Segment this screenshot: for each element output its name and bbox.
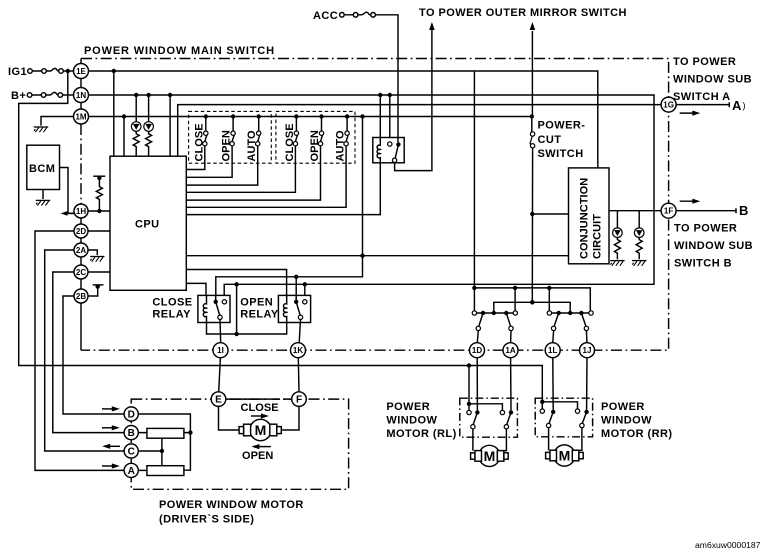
relay K2 close box bbox=[198, 295, 230, 322]
connector B bbox=[124, 426, 138, 440]
svg-text:POWER-: POWER- bbox=[538, 120, 586, 132]
sub switch bus 2 (above 1L/1J) bbox=[547, 311, 551, 315]
svg-text:OPEN: OPEN bbox=[309, 130, 321, 161]
wire 1M ground stub bbox=[41, 117, 74, 126]
connector 1F bbox=[661, 203, 676, 218]
ground (1M) bbox=[34, 127, 48, 132]
arrow C row (left) bbox=[106, 445, 120, 447]
svg-text:CLOSE: CLOSE bbox=[193, 123, 205, 161]
arrow open (driver motor) bbox=[255, 446, 271, 448]
RL motor switch box bbox=[460, 398, 518, 437]
node coil-bottom branch on B+ line bbox=[303, 282, 307, 286]
svg-text:SWITCH A: SWITCH A bbox=[673, 91, 731, 103]
svg-text:1G: 1G bbox=[663, 101, 674, 110]
svg-text:ACC: ACC bbox=[313, 10, 338, 22]
relay K3 open box bbox=[278, 295, 310, 322]
svg-text:RELAY: RELAY bbox=[152, 309, 191, 321]
svg-text:SWITCH: SWITCH bbox=[538, 148, 584, 160]
svg-text:B+: B+ bbox=[11, 90, 26, 102]
motor M-RR bbox=[546, 445, 584, 466]
switch SW-OPEN1 bbox=[186, 114, 235, 177]
svg-text:D: D bbox=[128, 410, 135, 421]
connector 1I bbox=[213, 343, 228, 358]
wire relay output to mirror switch bbox=[395, 31, 432, 171]
lamp LED2 branch bbox=[148, 95, 150, 122]
arrow D row bbox=[102, 408, 116, 410]
switch SW-AUTO1 bbox=[186, 114, 261, 185]
connector 1E bbox=[74, 64, 89, 79]
svg-text:WINDOW SUB: WINDOW SUB bbox=[673, 74, 752, 86]
connector 1N bbox=[74, 88, 89, 103]
switch dashed box 1 bbox=[189, 111, 272, 163]
svg-text:POWER WINDOW MOTOR: POWER WINDOW MOTOR bbox=[159, 499, 304, 511]
arrow to mirror switch 1 bbox=[431, 24, 433, 31]
node 1E-CPU drop bbox=[112, 69, 116, 73]
connector labels bbox=[75, 67, 673, 477]
wire 1M net horizontal bbox=[89, 116, 532, 118]
wire 1H to CPU bbox=[88, 210, 110, 212]
ground (BCM) bbox=[36, 200, 50, 205]
switch SW-AUTO2 bbox=[186, 114, 349, 207]
svg-text:2D: 2D bbox=[76, 227, 86, 236]
svg-text:CPU: CPU bbox=[135, 219, 160, 231]
svg-text:RELAY: RELAY bbox=[240, 309, 279, 321]
wire conj output to 1F bbox=[609, 210, 661, 212]
svg-text:AUTO: AUTO bbox=[246, 130, 258, 162]
svg-text:2A: 2A bbox=[76, 246, 86, 255]
wire CPU to close relay coil bbox=[186, 283, 206, 295]
lamp LED3 branch bbox=[616, 211, 618, 228]
svg-text:): ) bbox=[743, 101, 746, 111]
wire 2C to B bbox=[53, 272, 124, 433]
wire 2A ground bbox=[88, 250, 97, 255]
connector E bbox=[211, 392, 226, 407]
svg-text:1D: 1D bbox=[472, 346, 482, 355]
svg-text:POWER WINDOW MAIN SWITCH: POWER WINDOW MAIN SWITCH bbox=[84, 45, 275, 57]
sub switch bus 1 (above 1D/1A) bbox=[472, 311, 476, 315]
wire 1N net horizontal bbox=[89, 95, 655, 300]
svg-text:M: M bbox=[255, 422, 267, 438]
svg-text:CLOSE: CLOSE bbox=[152, 297, 192, 309]
power-cut switch SW-PC bbox=[531, 117, 533, 133]
arrow close (driver motor) bbox=[251, 415, 265, 417]
svg-text:MOTOR (RL): MOTOR (RL) bbox=[386, 428, 456, 440]
connector A bbox=[124, 463, 138, 477]
relay K1 coil bbox=[377, 138, 380, 164]
wire 1N to CPU drop bbox=[169, 95, 171, 156]
wire 2C to CPU bbox=[88, 271, 110, 273]
connector 1D bbox=[470, 343, 485, 358]
RR motor switch box bbox=[535, 398, 592, 437]
lamp LED1 branch bbox=[135, 95, 137, 122]
svg-text:WINDOW: WINDOW bbox=[601, 415, 652, 427]
wire 2D to CPU bbox=[88, 230, 110, 232]
svg-text:1A: 1A bbox=[505, 346, 515, 355]
svg-text:A: A bbox=[128, 466, 135, 477]
svg-text:A: A bbox=[732, 98, 742, 113]
B+ fuse bbox=[27, 93, 32, 98]
svg-text:E: E bbox=[215, 395, 222, 406]
wire coil bottoms tie bbox=[207, 321, 287, 334]
wire IG1 feed branch to rear motors bbox=[19, 71, 543, 402]
wire relay coil return row7 bbox=[186, 163, 380, 215]
ACC fuse bbox=[340, 13, 345, 18]
RL B+ contacts bbox=[467, 363, 471, 367]
connector 2A bbox=[74, 243, 88, 257]
main switch box outline (dash-dot) bbox=[81, 59, 669, 351]
switch dashed box 2 bbox=[276, 111, 355, 163]
wire E to F (driver box top) bbox=[226, 398, 262, 400]
svg-text:1I: 1I bbox=[217, 346, 224, 355]
svg-text:(DRIVER`S SIDE): (DRIVER`S SIDE) bbox=[159, 514, 254, 526]
wires 1I/1K down to E/F bbox=[219, 358, 299, 392]
svg-text:1M: 1M bbox=[75, 113, 86, 122]
RL switch poles bbox=[475, 410, 479, 414]
wire 1E net horizontal bbox=[89, 71, 598, 168]
wire CPU to conjunction circuit bbox=[186, 255, 568, 257]
CPU box U1 bbox=[110, 156, 186, 290]
svg-text:TO POWER OUTER MIRROR SWITCH: TO POWER OUTER MIRROR SWITCH bbox=[419, 7, 627, 19]
svg-text:WINDOW: WINDOW bbox=[386, 415, 437, 427]
BCM box bbox=[27, 145, 60, 189]
switch SW-CLOSE2 bbox=[186, 114, 298, 192]
switch SW-CLOSE1 bbox=[186, 114, 208, 169]
conjunction circuit box bbox=[569, 168, 610, 264]
BCM ground bbox=[42, 190, 44, 200]
svg-text:BCM: BCM bbox=[29, 163, 55, 175]
svg-text:am6xuw0000187: am6xuw0000187 bbox=[695, 540, 761, 550]
wire 2D to A bbox=[35, 231, 124, 470]
lamp LED4 branch bbox=[638, 211, 640, 228]
wire to 1G (from CPU top) bbox=[178, 105, 662, 157]
arrow to mirror switch 2 bbox=[531, 31, 533, 117]
svg-text:M: M bbox=[559, 448, 571, 464]
switch SW-OPEN2 bbox=[186, 114, 323, 200]
motor M driver bbox=[239, 419, 281, 440]
arrow 1G bbox=[680, 112, 697, 114]
RR B+ contacts bbox=[540, 400, 544, 404]
ground (LED4) bbox=[632, 261, 646, 266]
svg-text:IG1: IG1 bbox=[8, 66, 27, 78]
connector 1K bbox=[291, 343, 306, 358]
svg-text:CLOSE: CLOSE bbox=[241, 402, 279, 414]
svg-text:TO POWER: TO POWER bbox=[673, 56, 736, 68]
wire CPU to open relay coil bbox=[186, 270, 286, 296]
arrow 1F bbox=[680, 200, 697, 202]
svg-text:2C: 2C bbox=[76, 268, 86, 277]
resistor bar RB1 bbox=[147, 428, 184, 438]
svg-text:CLOSE: CLOSE bbox=[284, 123, 296, 161]
wire 1M to relay commons bbox=[216, 117, 363, 296]
wire relay NC contact feed bbox=[389, 95, 391, 142]
svg-text:POWER: POWER bbox=[601, 401, 645, 413]
connector 1J bbox=[580, 343, 595, 358]
svg-text:AUTO: AUTO bbox=[335, 130, 347, 162]
connector 1L bbox=[545, 343, 560, 358]
connector D bbox=[124, 407, 138, 421]
svg-text:B: B bbox=[739, 203, 748, 218]
ground (2A) bbox=[90, 257, 104, 262]
svg-text:2B: 2B bbox=[76, 292, 86, 301]
svg-text:CUT: CUT bbox=[538, 134, 562, 146]
pivot rail bbox=[494, 302, 570, 313]
wire BCM to 1H bbox=[60, 168, 75, 214]
svg-text:C: C bbox=[128, 447, 135, 458]
wires connectors 1D 1A 1L 1J down to motor switches bbox=[477, 358, 587, 411]
wire conj input upper bbox=[532, 213, 568, 215]
svg-text:POWER: POWER bbox=[386, 401, 430, 413]
connector 2B bbox=[74, 289, 88, 303]
wire 2A to C bbox=[45, 250, 124, 451]
svg-text:MOTOR (RR): MOTOR (RR) bbox=[601, 428, 673, 440]
svg-text:1J: 1J bbox=[583, 346, 592, 355]
driver motor box outline (dash-dot) bbox=[131, 399, 348, 489]
wire relay coil feed bbox=[379, 95, 381, 145]
connector F bbox=[292, 392, 307, 407]
arrow A row bbox=[102, 465, 116, 467]
motor M-RL bbox=[471, 445, 509, 466]
wire 1E drop to sub-switch contacts bbox=[473, 72, 475, 311]
svg-text:OPEN: OPEN bbox=[242, 450, 273, 462]
connector 1G bbox=[661, 97, 676, 112]
svg-text:F: F bbox=[296, 395, 302, 406]
svg-text:OPEN: OPEN bbox=[221, 130, 233, 161]
connector 1A bbox=[503, 343, 518, 358]
svg-text:TO POWER: TO POWER bbox=[674, 223, 737, 235]
wire 1G out to A bbox=[676, 102, 729, 107]
relay K1 contacts bbox=[388, 142, 392, 146]
IG1 fuse bbox=[28, 69, 33, 74]
wire 1F out to B bbox=[676, 208, 736, 213]
svg-text:1E: 1E bbox=[76, 67, 86, 76]
relay K1 (mirror) box bbox=[373, 138, 404, 163]
connector C bbox=[124, 444, 138, 458]
resistor bar RB2 bbox=[147, 466, 184, 476]
resistor R1 pull-up at 1H bbox=[93, 175, 105, 177]
driver motor wires from E/F bbox=[219, 407, 300, 430]
svg-text:1N: 1N bbox=[76, 91, 86, 100]
svg-text:CIRCUIT: CIRCUIT bbox=[592, 214, 604, 259]
wire contact feed branch bbox=[472, 286, 476, 290]
connector 2D bbox=[74, 224, 88, 238]
connector 2C bbox=[74, 265, 88, 279]
driver motor position sensor wires bbox=[138, 414, 190, 470]
svg-text:WINDOW SUB: WINDOW SUB bbox=[674, 240, 753, 252]
svg-text:CONJUNCTION: CONJUNCTION bbox=[579, 178, 591, 259]
wire ACC drop bbox=[397, 15, 399, 142]
RR switch poles bbox=[551, 410, 555, 414]
svg-text:1L: 1L bbox=[548, 346, 557, 355]
svg-text:M: M bbox=[484, 448, 496, 464]
svg-text:OPEN: OPEN bbox=[240, 297, 273, 309]
wire 2B to D bbox=[63, 296, 124, 414]
svg-text:1F: 1F bbox=[664, 207, 673, 216]
connector 1H bbox=[74, 204, 88, 218]
connector 1M bbox=[74, 109, 89, 124]
wire 2B stub bbox=[88, 288, 98, 296]
ground (LED3) bbox=[610, 261, 624, 266]
svg-text:1H: 1H bbox=[76, 207, 86, 216]
svg-text:1K: 1K bbox=[293, 346, 303, 355]
svg-text:B: B bbox=[128, 428, 135, 439]
arrow B row bbox=[102, 427, 116, 429]
svg-text:SWITCH B: SWITCH B bbox=[674, 258, 732, 270]
